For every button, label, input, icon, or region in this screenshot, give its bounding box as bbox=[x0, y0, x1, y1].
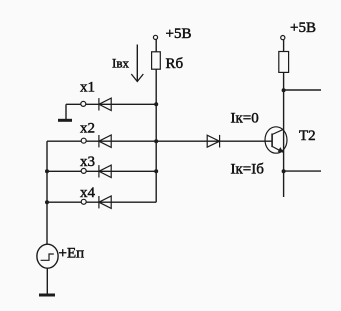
svg-text:Iк=0: Iк=0 bbox=[231, 111, 259, 127]
svg-text:Iк=Iб: Iк=Iб bbox=[231, 162, 265, 178]
svg-text:x3: x3 bbox=[80, 154, 95, 170]
svg-text:x2: x2 bbox=[80, 121, 95, 137]
svg-text:Iвх: Iвх bbox=[112, 56, 129, 71]
svg-text:Rб: Rб bbox=[166, 56, 184, 72]
svg-text:Т2: Т2 bbox=[299, 128, 316, 144]
svg-text:+5В: +5В bbox=[290, 20, 316, 36]
svg-text:x4: x4 bbox=[80, 185, 96, 201]
svg-text:+Еп: +Еп bbox=[59, 246, 85, 262]
svg-text:+5В: +5В bbox=[166, 26, 192, 42]
svg-text:x1: x1 bbox=[80, 80, 95, 96]
